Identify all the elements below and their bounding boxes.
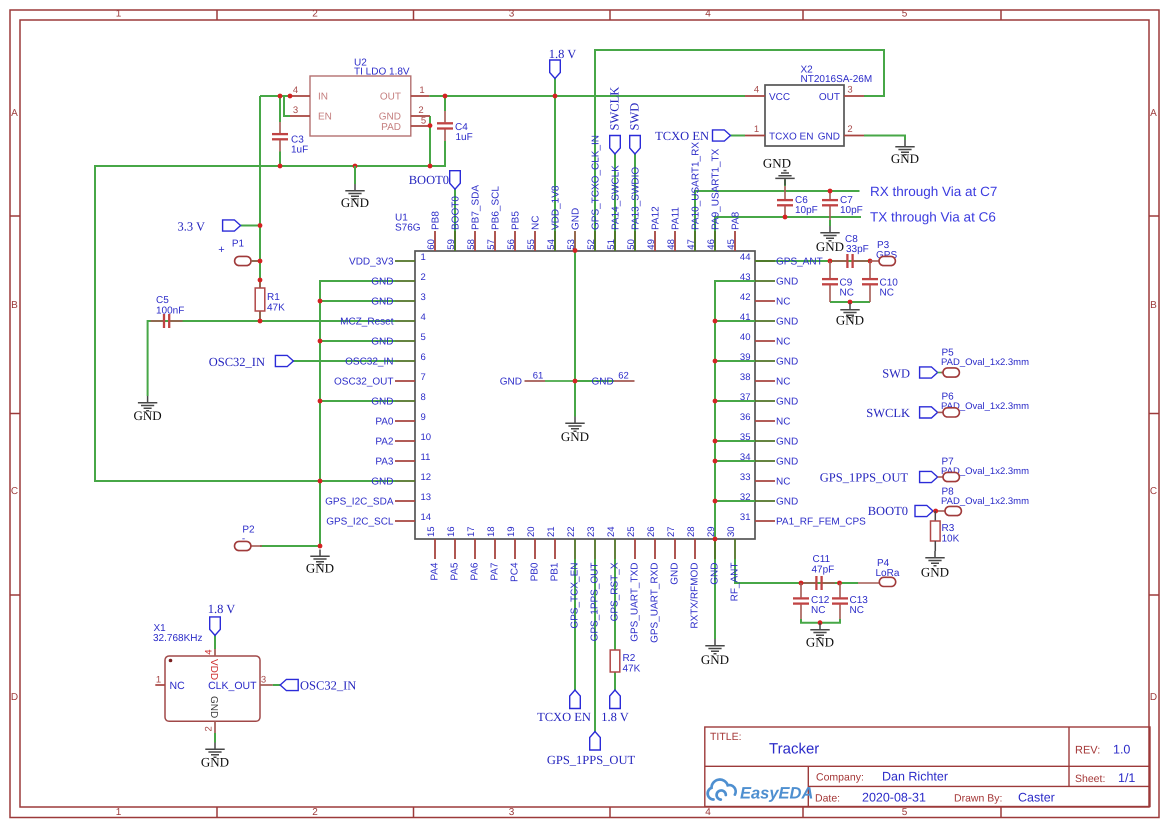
svg-text:45: 45 xyxy=(726,239,737,250)
svg-text:EN: EN xyxy=(318,112,332,123)
net flag GPS_1PPS_OUT bottom xyxy=(590,732,601,751)
svg-text:OUT: OUT xyxy=(380,92,401,103)
svg-text:22: 22 xyxy=(566,526,577,537)
svg-text:TX through Via at C6: TX through Via at C6 xyxy=(870,210,996,225)
svg-text:GPS_I2C_SDA: GPS_I2C_SDA xyxy=(325,496,394,507)
wire 3V3 net: P1/3.3V rail to U2 IN and EN xyxy=(241,96,290,321)
svg-text:NC: NC xyxy=(531,216,542,230)
svg-text:C5: C5 xyxy=(156,295,169,306)
svg-text:PB8: PB8 xyxy=(431,211,442,230)
capacitor C5 100nF xyxy=(151,320,163,322)
svg-text:NC: NC xyxy=(811,605,825,616)
svg-text:43: 43 xyxy=(740,272,751,283)
svg-text:48: 48 xyxy=(666,239,677,250)
svg-text:47K: 47K xyxy=(267,303,285,314)
svg-text:Dan Richter: Dan Richter xyxy=(882,770,948,784)
capacitor C13 NC xyxy=(839,583,841,597)
svg-text:VDD_1V8: VDD_1V8 xyxy=(551,185,562,230)
svg-text:5: 5 xyxy=(902,807,908,818)
wire RF_ANT net: U1 pin30 to C11/P4 xyxy=(735,559,858,583)
svg-text:60: 60 xyxy=(426,239,437,250)
wire X1 VDD to 1.8V flag xyxy=(214,635,216,649)
net flag TCXO EN bottom (GPS_TCX_EN) xyxy=(570,690,581,709)
U1 top pins 60-45 xyxy=(434,231,436,251)
svg-text:NC: NC xyxy=(776,376,790,387)
wire C3 column xyxy=(279,96,281,166)
svg-text:17: 17 xyxy=(466,526,477,537)
ground below R3 xyxy=(925,551,944,566)
svg-text:+: + xyxy=(218,244,224,256)
svg-text:1: 1 xyxy=(116,807,122,818)
junction C11 right xyxy=(837,581,842,586)
svg-text:BOOT0: BOOT0 xyxy=(868,504,908,518)
svg-text:PA14_SWCLK: PA14_SWCLK xyxy=(611,165,622,230)
svg-text:PA12: PA12 xyxy=(651,206,662,230)
U1 bottom pins 15-30 xyxy=(434,539,436,559)
svg-text:40: 40 xyxy=(740,332,751,343)
svg-text:14: 14 xyxy=(421,512,432,523)
net flag OSC32_IN at U1 pin6 xyxy=(275,355,293,366)
junction C8 right xyxy=(868,259,873,264)
svg-text:1.8 V: 1.8 V xyxy=(549,47,577,61)
wire BOOT0 flag to U1 pin59 xyxy=(454,189,456,251)
svg-text:20: 20 xyxy=(526,526,537,537)
svg-text:47pF: 47pF xyxy=(812,565,835,576)
svg-text:D: D xyxy=(1150,692,1157,703)
svg-text:GND: GND xyxy=(921,565,949,580)
svg-text:1uF: 1uF xyxy=(291,145,308,156)
svg-text:PAD: PAD xyxy=(381,122,401,133)
net flag SWCLK at U1 pin51 xyxy=(610,136,621,155)
svg-text:26: 26 xyxy=(646,526,657,537)
svg-text:PA5: PA5 xyxy=(450,562,461,581)
svg-text:62: 62 xyxy=(618,371,629,382)
wire GPS_ANT net: U1 pin44 to C8/P3 xyxy=(755,261,870,303)
net flag OSC32_IN at X1 CLK_OUT xyxy=(280,679,298,690)
svg-text:36: 36 xyxy=(740,412,751,423)
X1 pin 4 VDD xyxy=(214,649,216,656)
svg-text:49: 49 xyxy=(646,239,657,250)
svg-text:NC: NC xyxy=(170,680,186,692)
wire X2 GND pin to ground xyxy=(864,136,905,141)
svg-text:27: 27 xyxy=(666,526,677,537)
svg-text:5: 5 xyxy=(902,9,908,20)
capacitor C8 33pF xyxy=(833,260,846,262)
svg-text:R1: R1 xyxy=(267,292,280,303)
svg-text:RX through Via at C7: RX through Via at C7 xyxy=(870,184,997,199)
junction C6/TX xyxy=(783,215,788,220)
wire TX net: U1 pin46 to C6 xyxy=(715,217,861,251)
svg-text:Date:: Date: xyxy=(815,793,840,805)
svg-text:Caster: Caster xyxy=(1018,791,1055,805)
U1 right pins 44-31 xyxy=(755,260,775,262)
net flag 1.8V top xyxy=(550,60,561,79)
svg-text:A: A xyxy=(11,108,18,119)
svg-text:OSC32_IN: OSC32_IN xyxy=(209,355,265,369)
junction U1 pin53 at body xyxy=(573,248,578,253)
resistor R2 47K xyxy=(610,650,620,672)
svg-text:2: 2 xyxy=(312,9,318,20)
capacitor C6 10pF xyxy=(784,186,786,199)
svg-text:SWD: SWD xyxy=(882,366,910,380)
svg-text:1uF: 1uF xyxy=(456,132,473,143)
crystal X1 32.768KHz labels xyxy=(169,659,173,663)
svg-text:GND: GND xyxy=(776,396,798,407)
svg-text:15: 15 xyxy=(426,526,437,537)
svg-text:32.768KHz: 32.768KHz xyxy=(153,633,202,644)
svg-text:1: 1 xyxy=(156,675,161,686)
svg-text:19: 19 xyxy=(506,526,517,537)
svg-text:57: 57 xyxy=(486,239,497,250)
svg-text:61: 61 xyxy=(533,371,544,382)
ground below X1 xyxy=(205,743,224,758)
junction C4 top xyxy=(443,94,448,99)
ground below X2 pin2 xyxy=(895,140,914,155)
capacitor C11 47pF xyxy=(803,582,815,584)
wire SWCLK flag to U1 pin51 xyxy=(614,154,616,251)
svg-text:CLK_OUT: CLK_OUT xyxy=(208,680,257,692)
svg-text:3: 3 xyxy=(261,675,266,686)
svg-text:42: 42 xyxy=(740,292,751,303)
svg-text:PA8: PA8 xyxy=(731,211,742,230)
svg-text:GND: GND xyxy=(776,356,798,367)
ground inside U1 (pin 53 net) xyxy=(565,417,584,432)
svg-text:2: 2 xyxy=(418,105,423,116)
U1 left pins 1-14 xyxy=(395,260,415,262)
svg-text:28: 28 xyxy=(686,526,697,537)
svg-text:SWD: SWD xyxy=(628,103,642,131)
svg-text:PA4: PA4 xyxy=(430,562,441,581)
svg-text:NC: NC xyxy=(776,416,790,427)
svg-text:SWCLK: SWCLK xyxy=(608,87,622,131)
net flag 1.8V at X1 VDD xyxy=(210,617,221,636)
capacitor C3 1uF xyxy=(279,122,281,133)
svg-text:25: 25 xyxy=(626,526,637,537)
svg-text:OUT: OUT xyxy=(819,92,840,103)
svg-text:GND: GND xyxy=(371,476,393,487)
svg-text:GPS_UART_RXD: GPS_UART_RXD xyxy=(650,563,661,643)
svg-text:TI LDO 1.8V: TI LDO 1.8V xyxy=(354,67,410,78)
wire X1 GND pin to ground xyxy=(214,733,216,743)
svg-text:2: 2 xyxy=(204,726,215,731)
svg-text:BOOT0: BOOT0 xyxy=(451,196,462,230)
X1 pin 3 CLK_OUT xyxy=(260,684,273,686)
svg-text:R3: R3 xyxy=(942,523,955,534)
svg-text:GND: GND xyxy=(500,376,522,387)
svg-text:24: 24 xyxy=(606,526,617,537)
ground below C5 xyxy=(138,396,157,411)
svg-text:EasyEDA: EasyEDA xyxy=(740,785,813,803)
svg-text:GND: GND xyxy=(571,208,582,230)
junction R1 bottom / MCZ_Reset xyxy=(258,319,263,324)
svg-text:PA0: PA0 xyxy=(375,416,394,427)
ic X2 body xyxy=(765,85,844,146)
svg-text:PA3: PA3 xyxy=(375,456,394,467)
svg-text:GND: GND xyxy=(816,239,844,254)
junction C12/C13 ground xyxy=(818,620,823,625)
svg-text:10: 10 xyxy=(421,432,432,443)
svg-text:PAD_Oval_1x2.3mm: PAD_Oval_1x2.3mm xyxy=(941,357,1029,368)
svg-text:3: 3 xyxy=(509,9,515,20)
svg-text:4: 4 xyxy=(204,650,215,655)
svg-text:13: 13 xyxy=(421,492,432,503)
svg-text:GPS_1PPS_OUT: GPS_1PPS_OUT xyxy=(820,471,909,485)
wire MCZ_Reset net: C5/R1 to U1 pin4 xyxy=(148,321,395,396)
svg-text:GPS_1PPS_OUT: GPS_1PPS_OUT xyxy=(590,563,601,642)
wire U2 GND/PAD tie-down xyxy=(429,116,431,166)
capacitor C9 NC xyxy=(829,261,831,278)
svg-text:100nF: 100nF xyxy=(156,306,184,317)
svg-text:MCZ_Reset: MCZ_Reset xyxy=(340,316,394,327)
svg-text:GND: GND xyxy=(134,408,162,423)
svg-text:4: 4 xyxy=(421,312,426,323)
svg-text:41: 41 xyxy=(740,312,751,323)
wire GND bus left of U1 xyxy=(260,281,395,546)
junction P8/R3 xyxy=(933,509,938,514)
svg-text:8: 8 xyxy=(421,392,426,403)
junction dots GND bus left xyxy=(318,299,323,304)
wire GPS_TCX_EN: U1 pin22 to TCXO EN flag xyxy=(574,559,576,690)
junction R1 top xyxy=(258,278,263,283)
svg-text:2020-08-31: 2020-08-31 xyxy=(862,791,926,805)
svg-text:Company:: Company: xyxy=(816,772,864,784)
svg-text:35: 35 xyxy=(740,432,751,443)
svg-text:D: D xyxy=(11,692,18,703)
wire C4 column xyxy=(444,96,446,146)
svg-text:4: 4 xyxy=(293,85,298,96)
svg-text:GND: GND xyxy=(371,336,393,347)
junction dots GND wire below U2 xyxy=(278,164,283,169)
svg-text:VDD: VDD xyxy=(208,659,219,680)
svg-text:12: 12 xyxy=(421,472,432,483)
svg-text:3: 3 xyxy=(509,807,515,818)
net flag TCXO EN at X2 xyxy=(713,130,731,141)
svg-text:GND: GND xyxy=(763,156,791,171)
svg-text:1: 1 xyxy=(421,252,426,263)
capacitor C10 NC xyxy=(869,261,871,278)
svg-text:VCC: VCC xyxy=(769,92,790,103)
svg-text:52: 52 xyxy=(586,239,597,250)
svg-text:37: 37 xyxy=(740,392,751,403)
resistor R3 10K xyxy=(934,511,936,521)
svg-text:C: C xyxy=(1150,486,1157,497)
svg-text:59: 59 xyxy=(446,239,457,250)
net flag 1.8V bottom at R2 xyxy=(610,690,621,709)
wire GND riser of U1 pin53 through pins 61/62 xyxy=(575,251,614,417)
svg-text:3: 3 xyxy=(847,85,852,96)
svg-text:GND: GND xyxy=(776,436,798,447)
svg-text:C11: C11 xyxy=(813,554,831,565)
svg-text:P1: P1 xyxy=(232,239,245,250)
svg-text:GND: GND xyxy=(776,276,798,287)
ground at P2 junction xyxy=(310,550,329,565)
svg-text:NC: NC xyxy=(880,288,894,299)
svg-text:2: 2 xyxy=(312,807,318,818)
ground below C12/C13 xyxy=(810,623,829,638)
svg-text:44: 44 xyxy=(740,252,751,263)
wire GND net bottom of U2 xyxy=(95,146,445,481)
svg-text:PA10_USART1_RX: PA10_USART1_RX xyxy=(691,142,702,230)
wire SWD flag to U1 pin50 xyxy=(634,154,636,251)
svg-text:31: 31 xyxy=(740,512,751,523)
svg-text:3: 3 xyxy=(421,292,426,303)
wire 1.8V rail: U2 OUT to X2 VCC and U1 pin54 xyxy=(429,79,745,252)
ground below C9/C10 xyxy=(840,303,859,318)
svg-text:GND: GND xyxy=(818,131,840,142)
svg-text:VDD_3V3: VDD_3V3 xyxy=(349,256,394,267)
svg-text:PB7_SDA: PB7_SDA xyxy=(471,185,482,230)
svg-text:GPS_UART_TXD: GPS_UART_TXD xyxy=(630,563,641,642)
svg-text:4: 4 xyxy=(705,807,711,818)
svg-text:33: 33 xyxy=(740,472,751,483)
svg-text:9: 9 xyxy=(421,412,426,423)
svg-text:32: 32 xyxy=(740,492,751,503)
svg-text:29: 29 xyxy=(706,526,717,537)
wire C12/C13 tie to ground xyxy=(801,619,840,623)
svg-text:34: 34 xyxy=(740,452,751,463)
svg-text:10K: 10K xyxy=(942,534,960,545)
svg-text:NC: NC xyxy=(776,296,790,307)
svg-text:10pF: 10pF xyxy=(840,205,863,216)
svg-text:RXTX/RFMOD: RXTX/RFMOD xyxy=(690,563,701,629)
svg-text:GND: GND xyxy=(891,151,919,166)
svg-text:PA6: PA6 xyxy=(470,562,481,581)
wire OSC32_IN flag to U1 pin6 xyxy=(293,360,395,362)
svg-text:NT2016SA-26M: NT2016SA-26M xyxy=(801,74,873,85)
crystal X1 body xyxy=(165,656,260,721)
svg-text:2: 2 xyxy=(847,124,852,135)
capacitor C12 NC xyxy=(800,583,802,597)
svg-text:TITLE:: TITLE: xyxy=(710,731,742,743)
svg-text:4: 4 xyxy=(705,9,711,20)
svg-text:BOOT0: BOOT0 xyxy=(409,173,449,187)
svg-text:GND: GND xyxy=(341,195,369,210)
svg-text:GND: GND xyxy=(201,755,229,770)
svg-text:54: 54 xyxy=(546,239,557,250)
svg-text:A: A xyxy=(1150,108,1157,119)
svg-text:PB6_SCL: PB6_SCL xyxy=(491,186,502,230)
svg-text:PB0: PB0 xyxy=(530,562,541,581)
svg-text:53: 53 xyxy=(566,239,577,250)
svg-text:GND: GND xyxy=(806,635,834,650)
junction C11 left xyxy=(799,581,804,586)
wire C6 top to inverted ground xyxy=(784,180,786,187)
svg-text:47: 47 xyxy=(686,239,697,250)
svg-text:2: 2 xyxy=(421,272,426,283)
junction 1.8V flag xyxy=(553,94,558,99)
svg-text:1.8 V: 1.8 V xyxy=(208,602,236,616)
junction P1 xyxy=(258,259,263,264)
wire TCXO EN flag to X2 pin1 xyxy=(731,135,746,137)
svg-text:PA2: PA2 xyxy=(375,436,394,447)
svg-text:PA7: PA7 xyxy=(490,562,501,581)
svg-text:30: 30 xyxy=(726,526,737,537)
junction dots at U2 IN xyxy=(278,94,283,99)
ground below U1 pin29 xyxy=(705,639,724,654)
svg-text:B: B xyxy=(11,300,18,311)
svg-text:OSC32_IN: OSC32_IN xyxy=(300,679,356,693)
svg-text:PB5: PB5 xyxy=(511,211,522,230)
junction pins 53/61/62 xyxy=(573,379,578,384)
svg-text:GPS_ANT: GPS_ANT xyxy=(776,256,823,267)
svg-text:TCXO EN: TCXO EN xyxy=(537,710,591,724)
svg-text:RF_ANT: RF_ANT xyxy=(730,563,741,602)
svg-text:PB1: PB1 xyxy=(550,562,561,581)
svg-text:GPS_RST_X: GPS_RST_X xyxy=(610,562,621,621)
svg-text:16: 16 xyxy=(446,526,457,537)
svg-text:55: 55 xyxy=(526,239,537,250)
svg-text:6: 6 xyxy=(421,352,426,363)
ground below U2 xyxy=(354,166,356,184)
X1 pin 2 GND xyxy=(214,721,216,733)
svg-text:51: 51 xyxy=(606,239,617,250)
wire RX net: U1 pin47 to C7 xyxy=(695,191,860,251)
svg-text:1: 1 xyxy=(754,124,759,135)
svg-text:18: 18 xyxy=(486,526,497,537)
svg-text:1/1: 1/1 xyxy=(1118,771,1135,785)
wire GPS_1PPS_OUT: U1 pin23 to flag xyxy=(594,559,596,732)
wire GPS_RST_X: U1 pin24 through R2 to 1.8V flag xyxy=(614,559,616,690)
net flag SWD at U1 pin50 xyxy=(630,136,641,155)
svg-text:NC: NC xyxy=(840,288,854,299)
svg-text:33pF: 33pF xyxy=(846,244,869,255)
svg-text:GND: GND xyxy=(710,563,721,585)
svg-text:1: 1 xyxy=(419,85,424,96)
svg-text:TCXO EN: TCXO EN xyxy=(769,131,813,142)
svg-text:Tracker: Tracker xyxy=(769,741,819,758)
svg-text:46: 46 xyxy=(706,239,717,250)
svg-text:50: 50 xyxy=(626,239,637,250)
net flag BOOT0 at U1 pin59 xyxy=(450,171,461,190)
svg-text:Drawn By:: Drawn By: xyxy=(954,793,1002,805)
svg-text:4: 4 xyxy=(754,85,759,96)
svg-text:GND: GND xyxy=(371,276,393,287)
svg-text:GND: GND xyxy=(836,313,864,328)
junction dots GND bus right xyxy=(713,319,718,324)
svg-text:58: 58 xyxy=(466,239,477,250)
svg-text:PA1_RF_FEM_CPS: PA1_RF_FEM_CPS xyxy=(776,516,866,527)
svg-text:NC: NC xyxy=(776,476,790,487)
svg-text:1: 1 xyxy=(116,9,122,20)
net flag 3.3V xyxy=(223,220,241,231)
svg-text:3: 3 xyxy=(293,105,298,116)
svg-text:REV:: REV: xyxy=(1075,745,1100,757)
inverted ground above C6 xyxy=(775,171,794,186)
wire GND bus right side (inside U1) xyxy=(715,281,755,559)
svg-text:PA13_SWDIO: PA13_SWDIO xyxy=(631,167,642,230)
wire TCXO clock: X2 OUT to U1 pin52 xyxy=(595,50,884,251)
svg-text:GPS_1PPS_OUT: GPS_1PPS_OUT xyxy=(547,753,636,767)
wire C7 bottom to ground xyxy=(829,220,831,226)
junction GND bus at U1 pin29 xyxy=(713,537,718,542)
svg-text:OSC32_OUT: OSC32_OUT xyxy=(334,376,393,387)
svg-text:GND: GND xyxy=(306,561,334,576)
svg-text:R2: R2 xyxy=(623,653,636,664)
wire X1 CLK_OUT to OSC32_IN flag xyxy=(273,684,281,686)
svg-text:GND: GND xyxy=(592,376,614,387)
svg-text:11: 11 xyxy=(421,452,431,463)
svg-text:47K: 47K xyxy=(623,664,641,675)
svg-text:GND: GND xyxy=(371,296,393,307)
svg-text:GPS_I2C_SCL: GPS_I2C_SCL xyxy=(326,516,394,527)
svg-text:NC: NC xyxy=(850,605,864,616)
ic U2 body xyxy=(310,76,411,136)
ic U1 S76G body xyxy=(415,251,755,539)
svg-text:7: 7 xyxy=(421,372,426,383)
svg-text:NC: NC xyxy=(776,336,790,347)
svg-text:GND: GND xyxy=(561,429,589,444)
svg-text:21: 21 xyxy=(546,526,557,537)
